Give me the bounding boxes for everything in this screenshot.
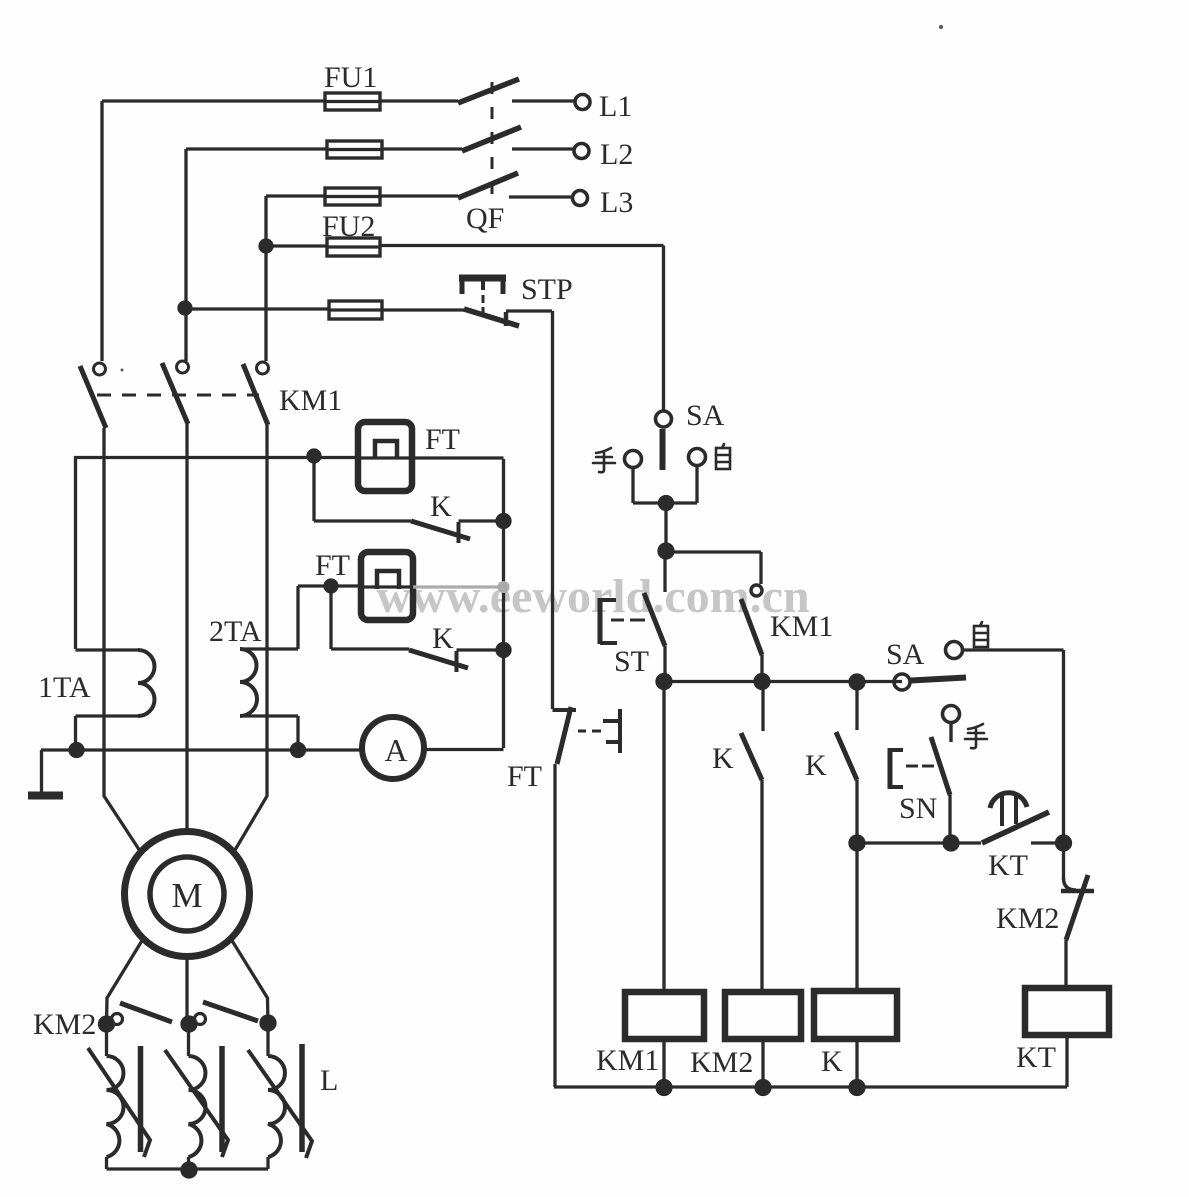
contactor KM1 pole3 (243, 362, 269, 425)
ammeter A (362, 717, 424, 779)
junction node K2 right (497, 644, 510, 657)
wire phase B lower (185, 424, 188, 831)
relay contact K2 NC (331, 586, 497, 672)
contactor KM2 pole1 (112, 1003, 173, 1025)
inductor L phase2 (165, 1024, 228, 1169)
svg-text:K: K (430, 490, 452, 523)
svg-text:L2: L2 (600, 138, 633, 171)
breaker QF pole2 blade (462, 127, 521, 151)
timer contact KT delayed NO (982, 793, 1049, 843)
glyph hand 2 (965, 724, 987, 748)
wire SA terminals join (633, 466, 697, 551)
current transformer 2TA (240, 649, 298, 750)
current transformer 1TA (76, 650, 155, 750)
svg-text:K: K (821, 1045, 843, 1078)
inductor L phase1 (88, 1024, 150, 1169)
junction node ST top (659, 544, 673, 558)
svg-text:KM1: KM1 (279, 384, 342, 417)
junction node reactor mid (182, 1163, 196, 1177)
wire CT secondary top rail (76, 458, 504, 650)
svg-text:FT: FT (315, 549, 350, 582)
relay contact K NO branch C (836, 682, 857, 991)
glyph auto 1 (716, 444, 730, 469)
wire phase C lower (235, 425, 267, 850)
inductor L phase3 (248, 1023, 312, 1169)
pushbutton STP actuator (459, 278, 506, 313)
wire FU2a to SA (266, 246, 664, 412)
svg-text:FU1: FU1 (324, 61, 377, 94)
junction node rail B (755, 675, 769, 689)
junction node bus K (850, 1081, 864, 1095)
contactor aux KM2 NC (1061, 875, 1094, 988)
junction node U (100, 1017, 114, 1031)
junction node V (182, 1017, 196, 1031)
svg-text:M: M (171, 876, 202, 915)
wire phase C vertical (264, 196, 267, 361)
coil KT (1025, 988, 1109, 1087)
thermal element FT2 (361, 552, 413, 620)
junction FU2a tap on phase C (260, 240, 272, 252)
terminal L2 (574, 144, 589, 159)
svg-text:FT: FT (425, 423, 460, 456)
selector SA auto terminal (689, 449, 706, 466)
svg-text:FT: FT (507, 760, 542, 793)
fuse FU2 pole2 (329, 301, 382, 319)
svg-text:K: K (432, 622, 454, 655)
selector SA lower auto terminal (946, 642, 1064, 659)
breaker QF pole1 blade (458, 79, 519, 103)
svg-text:SA: SA (886, 638, 925, 671)
pushbutton STP contact NC (464, 309, 552, 326)
wire control rail (664, 680, 902, 683)
pushbutton ST actuator (600, 598, 645, 644)
svg-text:STP: STP (521, 273, 573, 306)
svg-text:KM2: KM2 (996, 902, 1059, 935)
breaker QF pole3 blade (458, 173, 518, 198)
svg-text:KM1: KM1 (596, 1044, 659, 1077)
wire motor lead bottom mid (185, 957, 188, 1024)
junction node KT right (1057, 836, 1071, 850)
wire KM1 aux branch top (666, 552, 761, 584)
wire KT subrail (857, 841, 1064, 844)
wire STP to FT (551, 311, 554, 709)
junction FU2b tap on phase B (179, 302, 191, 314)
wire ground bus (41, 748, 504, 752)
contactor KM1 pole1 (80, 363, 106, 428)
junction node FT2 right faded (498, 581, 510, 593)
breaker QF linkage dashed (491, 82, 494, 198)
coil KM1 (625, 681, 704, 1087)
fuse FU2 pole1 (327, 238, 380, 256)
svg-text:KM2: KM2 (33, 1008, 96, 1041)
coil KM2 (725, 992, 801, 1087)
wire FU2b to STP (186, 309, 466, 310)
svg-text:L3: L3 (600, 186, 633, 219)
svg-text:QF: QF (466, 202, 504, 235)
junction node FT2 left (325, 580, 337, 592)
junction node K1 right (497, 515, 510, 528)
svg-text:K: K (712, 742, 734, 775)
svg-text:KM2: KM2 (690, 1046, 753, 1079)
relay contact K1 NC (314, 457, 497, 543)
selector switch SA common (656, 411, 672, 470)
svg-text:K: K (805, 749, 827, 782)
svg-text:A: A (384, 732, 407, 768)
glyph auto 2 (974, 622, 988, 647)
svg-text:FU2: FU2 (322, 210, 375, 243)
terminal L3 (573, 191, 588, 206)
svg-text:ST: ST (614, 645, 649, 678)
wire motor lead bottom right (231, 939, 268, 1023)
contactor KM1 pole2 (162, 361, 189, 424)
junction node SN bottom (944, 836, 958, 850)
junction node SA out (660, 497, 673, 510)
wire reactor bottom bus (107, 1167, 269, 1170)
junction node rail A (657, 675, 671, 689)
selector SA hand terminal (625, 451, 642, 468)
junction node 2TA ground (292, 744, 305, 757)
wire phase L3 horizontal (266, 196, 571, 197)
junction node bus KM1 (657, 1081, 671, 1095)
motor M1 (125, 832, 250, 957)
svg-text:KM1: KM1 (770, 610, 833, 643)
junction node W (261, 1016, 275, 1030)
svg-text:KT: KT (1016, 1041, 1056, 1074)
selector switch SA lower (894, 674, 966, 690)
thermal element FT1 (358, 422, 412, 491)
wire FT2 branch (298, 586, 361, 649)
junction node K coil rail (850, 836, 864, 850)
wire motor lead bottom left (107, 939, 144, 1024)
contactor KM1 linkage dashed (97, 394, 259, 397)
wire FT2 right faded (413, 585, 499, 588)
wire FT to bottom bus (553, 764, 556, 1087)
wire phase L1 horizontal (102, 99, 574, 102)
wire right secondary vertical (502, 459, 505, 748)
wire right branch vertical (1062, 650, 1065, 880)
contactor aux KM1 NO (741, 585, 762, 681)
glyph hand 1 (593, 448, 615, 472)
pushbutton SN contact NO (931, 737, 950, 843)
svg-text:L: L (320, 1064, 338, 1097)
coil K (814, 991, 897, 1087)
contactor KM2 pole2 (195, 1002, 259, 1025)
fuse FU1 pole3 (325, 188, 380, 205)
wire phase A lower (104, 428, 140, 851)
pushbutton SN actuator (890, 748, 934, 789)
svg-text:SN: SN (899, 792, 937, 825)
thermal relay contact FT NC (553, 707, 621, 764)
wire phase B vertical (184, 149, 187, 361)
svg-text:1TA: 1TA (38, 671, 91, 704)
wire bottom control bus (554, 1085, 1067, 1088)
relay contact K NO branch B (741, 681, 763, 992)
wire phase L2 horizontal (186, 147, 573, 150)
junction node rail C (850, 675, 864, 689)
speck top right (939, 25, 943, 29)
junction node bus KM2 (756, 1081, 770, 1095)
terminal L1 (575, 95, 590, 110)
svg-text:2TA: 2TA (209, 615, 262, 648)
junction node 1TA ground (70, 744, 83, 757)
ground (28, 750, 63, 796)
wire phase A vertical (100, 101, 103, 361)
svg-text:KT: KT (988, 849, 1028, 882)
svg-text:SA: SA (686, 399, 725, 432)
selector SA lower hand terminal (943, 706, 960, 743)
fuse FU1 pole1 (325, 93, 380, 110)
fuse FU1 pole2 (327, 141, 382, 158)
pushbutton ST contact NO (644, 551, 665, 681)
junction node FT1 left (308, 450, 320, 462)
svg-text:L1: L1 (599, 90, 632, 123)
